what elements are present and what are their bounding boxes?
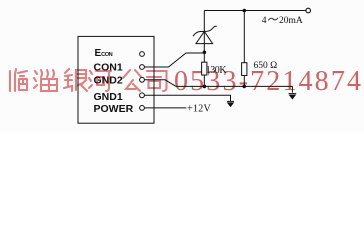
pin circle GND1 — [140, 93, 145, 98]
pin circle GND2 — [140, 77, 145, 82]
wire node to R1 top — [203, 52, 205, 62]
wire top rail to R2 top — [243, 11, 245, 63]
ground symbol bottom rail — [289, 94, 297, 99]
svg-text:130K: 130K — [206, 65, 228, 76]
svg-text:650 Ω: 650 Ω — [254, 61, 278, 71]
司 — [147, 71, 167, 91]
pin circle POWER — [140, 106, 145, 111]
临 — [10, 69, 27, 91]
wire top rail — [204, 10, 305, 12]
junction node bottom rail R1 — [203, 85, 207, 89]
wire POWER to +12V — [145, 107, 187, 109]
pin circle Econ — [140, 52, 145, 57]
tilde of 4~20mA — [268, 18, 278, 21]
resistor R1 130K — [202, 62, 207, 75]
svg-text:GND1: GND1 — [94, 91, 123, 103]
wire GND2 to bottom rail to ground — [145, 80, 293, 93]
河 — [89, 71, 111, 91]
ground symbol near box — [227, 101, 234, 106]
银 — [64, 69, 87, 91]
wire CON1 to zener node — [145, 53, 205, 67]
公 — [123, 70, 142, 91]
output terminal circle — [306, 8, 311, 13]
svg-text:POWER: POWER — [94, 103, 134, 115]
resistor R2 650 ohm — [242, 63, 247, 76]
svg-text:CON1: CON1 — [94, 62, 123, 74]
svg-text:ECON: ECON — [95, 48, 113, 59]
label 4~20mA — [262, 16, 303, 26]
wire R2 bottom to bottom rail — [243, 75, 245, 86]
wire GND1 to ground — [145, 95, 231, 101]
watermark company name 临淄银河公司 — [10, 69, 167, 91]
wire R1 bottom to bottom rail — [203, 75, 205, 87]
svg-text:GND2: GND2 — [94, 75, 123, 87]
junction node top rail R2 — [243, 9, 247, 13]
wire zener vertical — [203, 11, 205, 53]
svg-text:20mA: 20mA — [279, 16, 303, 26]
junction node bottom rail R2 — [242, 85, 246, 89]
svg-text:+12V: +12V — [187, 104, 212, 115]
淄 — [34, 70, 57, 91]
pin circle CON1 — [140, 65, 145, 70]
junction node zener/CON1 — [203, 51, 207, 55]
zener diode D1 — [193, 26, 217, 43]
module box — [78, 36, 154, 123]
svg-text:4: 4 — [262, 16, 267, 26]
